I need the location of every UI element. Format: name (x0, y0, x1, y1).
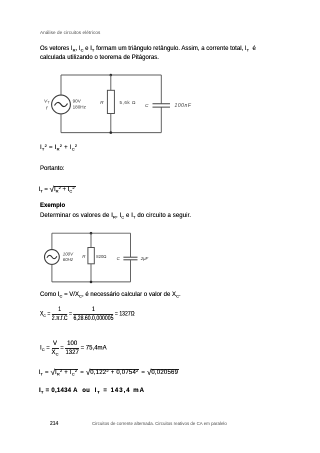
Determinar line (40, 213, 191, 219)
footer running title (92, 421, 227, 426)
formula IT^2 = IR^2 + IC^2 (40, 145, 77, 151)
XC fraction formula (40, 306, 135, 320)
resistor R circuit1 (107, 90, 114, 113)
svg-text:820Ω: 820Ω (96, 254, 106, 259)
svg-text:R: R (100, 100, 104, 106)
label 5,6k ohm (120, 100, 136, 105)
svg-text:f: f (46, 105, 48, 111)
wire bottom circuit1 (61, 132, 161, 134)
svg-text:C: C (117, 256, 121, 261)
svg-text:VT: VT (44, 99, 50, 105)
label VT (44, 99, 50, 105)
label C circuit1 (145, 103, 149, 109)
header running title (40, 30, 100, 35)
wire left lower circuit1 (60, 114, 62, 133)
wire capacitor top circuit1 (160, 75, 162, 103)
wire left lower circuit2 (51, 264, 53, 282)
svg-text:5,6k Ω: 5,6k Ω (120, 100, 136, 105)
label 90V 180Hz (73, 98, 87, 109)
Portanto: (40, 166, 65, 172)
label 820 ohm (96, 254, 106, 259)
Como line (40, 292, 181, 298)
IT sqrt formula (39, 367, 180, 378)
label 2uF (140, 256, 149, 261)
wire resistor top circuit1 (110, 75, 112, 90)
junction node top circuit2 (90, 232, 93, 235)
AC source circuit2 (45, 250, 60, 265)
svg-text:R: R (82, 254, 86, 259)
svg-text:180Hz: 180Hz (73, 104, 87, 109)
Exemplo heading (40, 203, 65, 209)
capacitor C circuit2 (123, 257, 137, 260)
wire capacitor top circuit2 (130, 233, 132, 257)
label R circuit1 (100, 100, 104, 106)
label 100nF (175, 103, 192, 109)
AC source VT circuit1 (52, 95, 71, 114)
wire top circuit2 (52, 232, 131, 234)
svg-text:100V: 100V (63, 251, 74, 256)
junction node bottom circuit1 (110, 131, 113, 134)
svg-text:2μF: 2μF (140, 256, 149, 261)
svg-text:60Hz: 60Hz (63, 257, 74, 262)
wire capacitor bottom circuit1 (160, 107, 162, 132)
wire capacitor bottom circuit2 (130, 260, 132, 282)
wire resistor bottom circuit1 (110, 114, 112, 133)
junction node top circuit1 (110, 74, 113, 77)
wire left upper circuit1 (60, 75, 62, 95)
IC fraction formula (40, 340, 107, 354)
wire resistor top circuit2 (90, 233, 92, 247)
wire bottom circuit2 (52, 281, 131, 283)
footer page number 214 (50, 421, 58, 427)
label f (46, 105, 48, 111)
wire left upper circuit2 (51, 233, 53, 250)
junction node bottom circuit2 (90, 281, 93, 284)
resistor R circuit2 (88, 248, 94, 264)
wire resistor bottom circuit2 (90, 264, 92, 282)
label R circuit2 (82, 254, 86, 259)
wire top circuit1 (61, 74, 161, 76)
label 100V 60Hz (63, 251, 74, 262)
bold result line (39, 388, 145, 394)
capacitor C circuit1 (153, 104, 171, 107)
svg-text:C: C (145, 103, 149, 109)
paragraph (40, 45, 256, 64)
label C circuit2 (117, 256, 121, 261)
formula IT = sqrt(IR^2 + IC^2) (39, 184, 76, 195)
svg-text:100nF: 100nF (175, 103, 192, 109)
svg-text:90V: 90V (73, 98, 82, 103)
